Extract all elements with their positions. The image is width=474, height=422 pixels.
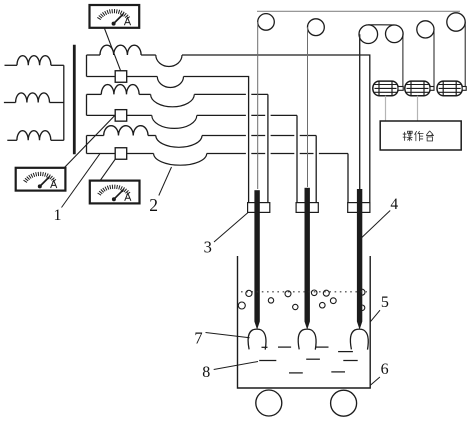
metal droplet at electrode1 tip <box>248 329 266 350</box>
label 4 leader <box>362 211 390 238</box>
metal droplet at electrode2 tip <box>298 329 316 350</box>
wire branch2 upper to electrode1 right holder <box>194 93 268 95</box>
svg-text:3: 3 <box>204 237 212 256</box>
electrode rod 3 <box>357 189 362 322</box>
node: branch 2 terminal bracket <box>86 94 88 115</box>
leader meter A1 to square1 <box>104 28 120 71</box>
svg-text:4: 4 <box>390 196 398 213</box>
wire branch1 lower with CT square <box>87 76 158 78</box>
electrode1 clamp box <box>248 203 270 213</box>
primary winding L3 (bottom left coil) <box>7 139 17 141</box>
overhead beam line <box>257 10 460 12</box>
electrode2 clamp box <box>296 203 318 213</box>
svg-text:8: 8 <box>202 364 210 381</box>
CT square branch1 <box>115 71 127 83</box>
label 8 leader <box>214 362 258 370</box>
wire branch3 lower with CT square <box>87 153 154 155</box>
hoist rope to electrode1 <box>257 22 259 189</box>
wire branch3 upper to droop <box>148 135 156 137</box>
svg-text:5: 5 <box>381 294 389 311</box>
rope over pulleys P3-P4 <box>368 24 394 26</box>
leader meter A3 to square3 <box>100 159 115 181</box>
wire branch3 upper to electrode2 right holder <box>202 135 316 137</box>
label 2 leader <box>159 167 172 196</box>
console text 操作台 <box>403 131 434 141</box>
wire branch1 upper to electrode3 right holder <box>182 55 370 203</box>
svg-text:7: 7 <box>194 329 202 348</box>
wire branch3 lower to electrode3 left holder <box>207 153 348 155</box>
flexible cable droop branch2 lower <box>152 115 197 128</box>
electrode rod 2 <box>305 188 310 322</box>
CT square branch3 <box>115 148 127 160</box>
svg-text:2: 2 <box>149 195 158 215</box>
pulley P2 <box>308 19 325 36</box>
svg-text:1: 1 <box>54 207 62 224</box>
wire branch1 upper to droop <box>141 54 156 56</box>
label 1 leader <box>62 154 100 208</box>
label 7 leader <box>206 333 250 338</box>
control line M1 to console <box>385 96 387 121</box>
CT square branch2 <box>115 110 127 122</box>
console box 操作台 <box>380 121 461 150</box>
ammeter A2 (left lower) <box>16 168 66 191</box>
flexible cable droop branch1 lower <box>157 77 183 88</box>
secondary winding branch 3 coil <box>87 135 104 137</box>
flexible cable droop branch1 upper <box>156 55 182 66</box>
pulley P6 <box>447 13 465 31</box>
winch motor M1 <box>373 81 398 96</box>
rope pulley6 to winch3 <box>464 22 466 88</box>
metal droplet at electrode3 tip <box>350 329 368 350</box>
slag surface dotted line <box>241 291 367 293</box>
furnace crucible walls <box>238 256 371 388</box>
svg-text:6: 6 <box>381 361 389 378</box>
transformer core bar <box>73 45 76 155</box>
gas bubbles in slag <box>238 289 365 310</box>
hoist rope to electrode3 <box>359 34 361 189</box>
electrode rod 1 <box>254 190 259 321</box>
winch motor M3 <box>437 81 462 96</box>
secondary winding branch 1 coil <box>87 54 101 56</box>
hoist rope to electrode2 <box>307 27 309 187</box>
primary winding L2 (middle left coil) <box>4 102 16 104</box>
label 5 leader <box>370 310 380 322</box>
wire branch1 lower to electrode1 left holder <box>184 77 249 203</box>
flexible cable droop branch2 upper <box>151 94 195 106</box>
rope pulley5 to winch2 <box>433 29 435 88</box>
wire: primary star connector <box>63 65 65 140</box>
label 3 leader <box>214 213 248 242</box>
wire branch2 lower to electrode2 left holder <box>197 114 297 116</box>
ammeter A3 (bottom middle-left) <box>90 181 140 204</box>
leader meter A2 to square2 <box>65 115 115 167</box>
carriage wheel right <box>331 390 357 416</box>
node: branch 3 terminal bracket <box>86 136 88 154</box>
electrode3 clamp box <box>348 203 370 213</box>
pulley P5 <box>417 21 434 38</box>
rope pulley4 to winch1 <box>402 34 404 89</box>
secondary winding branch 2 coil <box>87 93 102 95</box>
control line M2 to console <box>417 96 419 121</box>
pulley P3 <box>359 25 378 44</box>
label 6 leader <box>370 377 380 385</box>
wire branch2 upper to droop <box>139 93 151 95</box>
wire branch2 lower with CT square <box>87 114 152 116</box>
flexible cable droop branch3 upper <box>156 136 202 148</box>
winch motor M2 <box>405 81 430 96</box>
primary winding L1 (top left coil) <box>5 64 18 66</box>
molten metal pool dashes <box>259 347 358 373</box>
ammeter A1 (top) <box>90 5 140 28</box>
pulley P1 <box>258 14 275 31</box>
carriage wheel left <box>256 390 282 416</box>
node: branch 1 terminal bracket <box>86 55 88 77</box>
flexible cable droop branch3 lower <box>154 154 207 166</box>
pulley P4 <box>386 25 404 43</box>
